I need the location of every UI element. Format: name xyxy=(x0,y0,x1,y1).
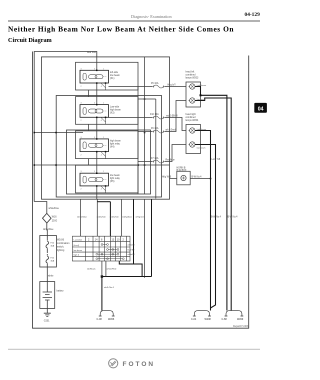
svg-text:high beam: high beam xyxy=(110,141,121,143)
svg-text:(K5): (K5) xyxy=(110,181,115,183)
svg-text:white/blue: white/blue xyxy=(49,207,60,210)
svg-text:head right: head right xyxy=(186,113,197,116)
svg-text:red/white: red/white xyxy=(97,216,107,219)
svg-text:white/bl: white/bl xyxy=(128,244,135,247)
svg-text:lamps W203: lamps W203 xyxy=(186,78,199,80)
svg-text:left-side: left-side xyxy=(110,71,119,74)
svg-text:F7 15A: F7 15A xyxy=(151,157,159,160)
svg-text:wh 0.5red: wh 0.5red xyxy=(166,129,177,132)
svg-text:B-W BOX: B-W BOX xyxy=(177,170,187,172)
svg-text:light relay: light relay xyxy=(110,177,121,180)
svg-text:white: white xyxy=(48,275,54,278)
svg-text:white/blue: white/blue xyxy=(43,228,54,231)
svg-text:C-04: C-04 xyxy=(191,318,197,321)
svg-text:B-W No.4: B-W No.4 xyxy=(228,217,239,219)
svg-text:04-129: 04-129 xyxy=(245,12,261,18)
svg-text:white/bl: white/bl xyxy=(128,253,135,256)
svg-text:W208: W208 xyxy=(205,318,212,321)
svg-text:(K3): (K3) xyxy=(110,112,115,114)
svg-text:Lo/g Y-B: Lo/g Y-B xyxy=(212,159,221,161)
svg-text:B-W No.4: B-W No.4 xyxy=(192,177,203,179)
svg-text:light relay: light relay xyxy=(110,143,121,146)
svg-text:combined: combined xyxy=(186,117,197,119)
svg-text:lighting: lighting xyxy=(57,249,65,252)
svg-text:Low-side: Low-side xyxy=(110,106,120,108)
svg-text:C-88: C-88 xyxy=(222,318,228,321)
svg-text:Circuit Diagram: Circuit Diagram xyxy=(8,37,53,44)
svg-text:(K4): (K4) xyxy=(110,147,115,149)
svg-text:low beam: low beam xyxy=(197,148,206,150)
svg-text:head left: head left xyxy=(186,71,195,74)
svg-text:white/blue: white/blue xyxy=(77,216,88,219)
svg-text:low beam: low beam xyxy=(197,99,206,101)
svg-text:wh/green: wh/green xyxy=(136,216,146,219)
svg-text:F10 10A: F10 10A xyxy=(150,113,159,116)
svg-text:W16: W16 xyxy=(52,216,57,218)
svg-text:B-W B2: B-W B2 xyxy=(128,250,136,252)
svg-text:lamps W204: lamps W204 xyxy=(186,120,199,122)
svg-text:high beam: high beam xyxy=(110,109,121,111)
svg-text:white/Red: white/Red xyxy=(107,267,118,270)
svg-text:Hi-g b/Y: Hi-g b/Y xyxy=(168,85,177,87)
svg-text:FOTON: FOTON xyxy=(123,361,156,368)
svg-text:low beam: low beam xyxy=(74,250,83,252)
svg-text:red 0.5B-W: red 0.5B-W xyxy=(166,115,178,118)
svg-text:(K1): (K1) xyxy=(110,78,115,80)
svg-text:Red/blue: Red/blue xyxy=(166,160,176,162)
svg-text:2D-D: 2D-D xyxy=(52,221,58,223)
svg-text:Hi/g W-B: Hi/g W-B xyxy=(162,177,172,179)
svg-text:W16-B: W16-B xyxy=(57,240,64,242)
svg-text:C-08: C-08 xyxy=(97,318,103,321)
svg-text:low beam: low beam xyxy=(110,175,120,177)
svg-text:G201: G201 xyxy=(44,321,50,323)
svg-text:I- position: I- position xyxy=(74,238,83,241)
svg-text:wh/b No.4: wh/b No.4 xyxy=(104,287,115,289)
svg-text:high beam: high beam xyxy=(197,85,207,87)
svg-text:W206: W206 xyxy=(108,318,115,321)
svg-text:(level): (level) xyxy=(74,245,80,247)
svg-text:red/white: red/white xyxy=(110,216,120,219)
svg-text:high beam: high beam xyxy=(197,129,207,131)
svg-text:switch,: switch, xyxy=(57,246,64,249)
svg-text:W209: W209 xyxy=(237,318,244,321)
svg-text:F5 10A: F5 10A xyxy=(151,82,159,85)
svg-text:04: 04 xyxy=(258,106,264,112)
svg-text:wh/black: wh/black xyxy=(87,268,96,270)
svg-text:red/yellow: red/yellow xyxy=(122,216,132,219)
svg-text:Red 30A: Red 30A xyxy=(87,51,96,54)
svg-text:F6 10A: F6 10A xyxy=(151,127,159,130)
svg-text:high b: high b xyxy=(74,254,80,256)
svg-text:combination: combination xyxy=(57,242,70,245)
svg-text:Neither High Beam Nor Low Beam: Neither High Beam Nor Low Beam At Neithe… xyxy=(8,25,234,34)
svg-text:Repair07-0009: Repair07-0009 xyxy=(233,325,249,328)
svg-text:combined: combined xyxy=(186,75,197,77)
svg-text:low beam: low beam xyxy=(110,75,120,77)
svg-text:battery: battery xyxy=(57,290,65,293)
svg-text:Diagnosis- Examination: Diagnosis- Examination xyxy=(131,14,172,19)
svg-text:B-W No.4: B-W No.4 xyxy=(211,217,222,219)
